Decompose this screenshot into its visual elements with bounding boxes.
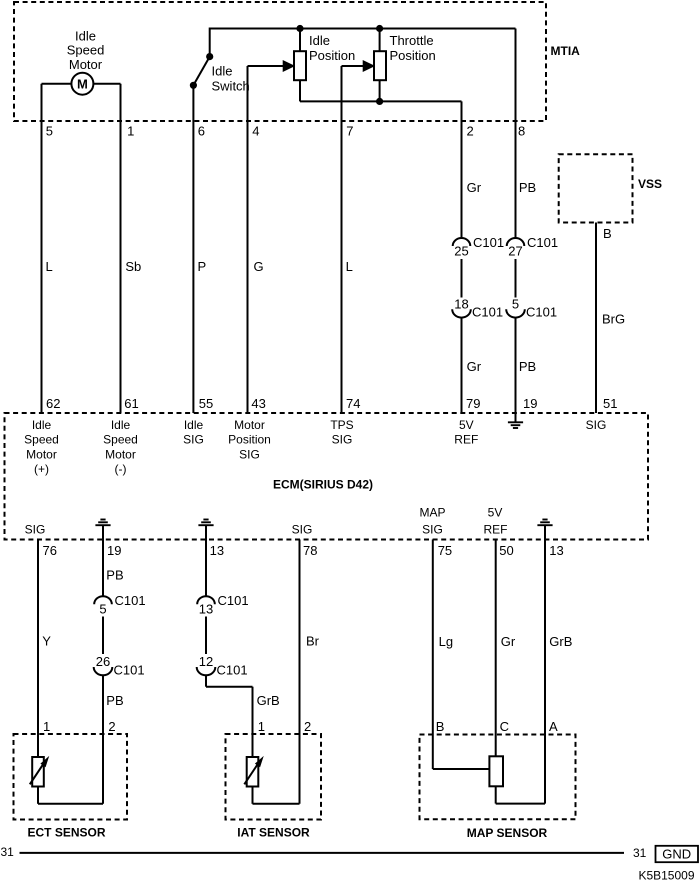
svg-text:62: 62 xyxy=(46,396,60,411)
svg-text:Idle: Idle xyxy=(212,64,233,79)
svg-text:55: 55 xyxy=(199,396,213,411)
svg-text:19: 19 xyxy=(523,396,537,411)
svg-text:4: 4 xyxy=(252,124,259,139)
svg-text:SIG: SIG xyxy=(25,523,46,537)
svg-text:(+): (+) xyxy=(34,462,49,476)
svg-text:L: L xyxy=(46,259,53,274)
svg-text:VSS: VSS xyxy=(638,177,662,191)
svg-text:78: 78 xyxy=(303,543,317,558)
svg-text:1: 1 xyxy=(258,719,265,734)
svg-text:76: 76 xyxy=(43,543,57,558)
svg-text:ECT SENSOR: ECT SENSOR xyxy=(27,826,105,840)
svg-text:GrB: GrB xyxy=(257,693,280,708)
svg-text:SIG: SIG xyxy=(183,433,204,447)
svg-text:IAT SENSOR: IAT SENSOR xyxy=(237,826,310,840)
svg-text:Motor: Motor xyxy=(26,447,57,461)
svg-text:MAP SENSOR: MAP SENSOR xyxy=(467,826,548,840)
svg-text:27: 27 xyxy=(508,243,522,258)
svg-text:Switch: Switch xyxy=(212,79,250,94)
svg-text:26: 26 xyxy=(96,654,110,669)
svg-text:C101: C101 xyxy=(114,662,145,677)
svg-text:5: 5 xyxy=(512,297,519,312)
svg-text:Idle: Idle xyxy=(32,418,52,432)
svg-text:Position: Position xyxy=(228,433,271,447)
svg-text:51: 51 xyxy=(603,396,617,411)
svg-text:Gr: Gr xyxy=(467,359,482,374)
svg-text:5: 5 xyxy=(46,124,53,139)
svg-text:SIG: SIG xyxy=(422,523,443,537)
svg-text:GrB: GrB xyxy=(549,634,572,649)
svg-text:PB: PB xyxy=(519,359,536,374)
svg-text:Idle: Idle xyxy=(75,29,96,44)
svg-text:19: 19 xyxy=(107,543,121,558)
svg-text:BrG: BrG xyxy=(602,312,625,327)
svg-text:Speed: Speed xyxy=(24,433,59,447)
svg-text:13: 13 xyxy=(199,601,213,616)
svg-text:PB: PB xyxy=(519,180,536,195)
svg-text:75: 75 xyxy=(438,543,452,558)
svg-text:REF: REF xyxy=(484,523,508,537)
svg-text:PB: PB xyxy=(106,693,123,708)
svg-text:13: 13 xyxy=(549,543,563,558)
svg-text:Motor: Motor xyxy=(105,447,136,461)
svg-text:50: 50 xyxy=(499,543,513,558)
svg-text:P: P xyxy=(198,259,207,274)
svg-text:Throttle: Throttle xyxy=(390,33,434,48)
svg-text:B: B xyxy=(603,226,612,241)
svg-text:31: 31 xyxy=(1,845,15,859)
svg-text:Motor: Motor xyxy=(234,418,265,432)
svg-text:18: 18 xyxy=(454,297,468,312)
svg-text:74: 74 xyxy=(346,396,360,411)
svg-text:M: M xyxy=(77,77,88,92)
svg-text:Position: Position xyxy=(390,48,436,63)
svg-text:25: 25 xyxy=(454,243,468,258)
svg-text:Lg: Lg xyxy=(439,634,453,649)
svg-text:Idle: Idle xyxy=(309,33,330,48)
svg-text:Motor: Motor xyxy=(69,57,103,72)
svg-text:REF: REF xyxy=(454,433,478,447)
svg-text:13: 13 xyxy=(210,543,224,558)
svg-text:A: A xyxy=(549,719,558,734)
svg-text:SIG: SIG xyxy=(332,433,353,447)
svg-text:C101: C101 xyxy=(527,235,558,250)
svg-text:PB: PB xyxy=(106,568,123,583)
svg-text:SIG: SIG xyxy=(586,418,607,432)
svg-text:G: G xyxy=(254,259,264,274)
svg-text:GND: GND xyxy=(662,847,691,862)
svg-text:C101: C101 xyxy=(526,304,557,319)
svg-text:Position: Position xyxy=(309,48,355,63)
svg-text:79: 79 xyxy=(466,396,480,411)
svg-text:Gr: Gr xyxy=(501,634,516,649)
svg-text:K5B15009: K5B15009 xyxy=(638,869,694,883)
svg-text:2: 2 xyxy=(108,719,115,734)
svg-text:Idle: Idle xyxy=(111,418,131,432)
svg-text:TPS: TPS xyxy=(330,418,353,432)
svg-text:Sb: Sb xyxy=(125,259,141,274)
svg-text:Y: Y xyxy=(42,634,51,649)
svg-text:61: 61 xyxy=(124,396,138,411)
svg-text:31: 31 xyxy=(633,846,647,860)
svg-text:(-): (-) xyxy=(115,462,127,476)
svg-text:C101: C101 xyxy=(217,662,248,677)
svg-text:MAP: MAP xyxy=(419,506,445,520)
svg-text:SIG: SIG xyxy=(239,447,260,461)
svg-text:7: 7 xyxy=(346,124,353,139)
svg-text:C101: C101 xyxy=(472,304,503,319)
svg-text:Speed: Speed xyxy=(67,43,105,58)
svg-text:6: 6 xyxy=(198,124,205,139)
svg-text:5: 5 xyxy=(99,601,106,616)
svg-text:5V: 5V xyxy=(488,506,503,520)
svg-text:1: 1 xyxy=(127,124,134,139)
svg-text:2: 2 xyxy=(304,719,311,734)
svg-text:2: 2 xyxy=(467,124,474,139)
svg-text:C101: C101 xyxy=(218,593,249,608)
svg-text:5V: 5V xyxy=(459,418,474,432)
svg-text:C: C xyxy=(500,719,509,734)
svg-text:C101: C101 xyxy=(115,593,146,608)
svg-text:8: 8 xyxy=(518,124,525,139)
svg-text:43: 43 xyxy=(251,396,265,411)
svg-text:MTIA: MTIA xyxy=(551,44,581,58)
svg-text:Speed: Speed xyxy=(103,433,138,447)
svg-text:ECM(SIRIUS D42): ECM(SIRIUS D42) xyxy=(273,478,373,492)
svg-text:Br: Br xyxy=(306,634,320,649)
svg-text:SIG: SIG xyxy=(292,523,313,537)
svg-text:C101: C101 xyxy=(473,235,504,250)
svg-text:Idle: Idle xyxy=(184,418,204,432)
svg-text:L: L xyxy=(346,259,353,274)
svg-text:12: 12 xyxy=(199,654,213,669)
svg-text:Gr: Gr xyxy=(467,180,482,195)
svg-text:1: 1 xyxy=(43,719,50,734)
svg-text:B: B xyxy=(436,719,445,734)
